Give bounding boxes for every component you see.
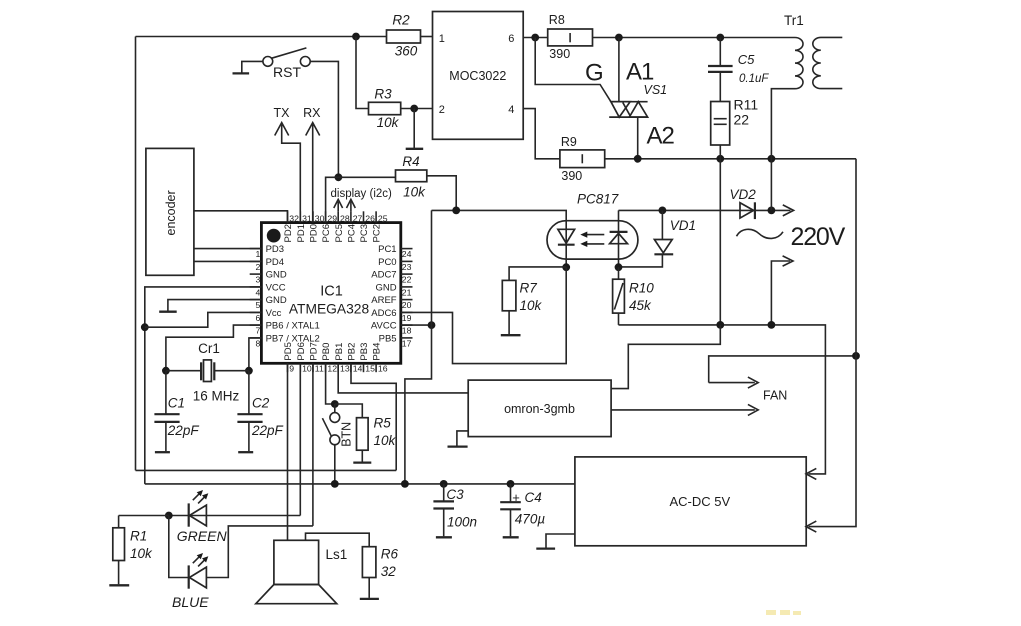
svg-text:16: 16 [378,364,388,374]
svg-text:24: 24 [402,249,412,259]
svg-text:R9: R9 [561,135,577,149]
node triac A1 top [615,34,623,42]
IC1 left pin stubs [250,249,262,338]
svg-text:22pF: 22pF [251,423,284,438]
svg-text:18: 18 [402,326,412,336]
resistor R2 [387,13,421,59]
wire AVCC up to VD line and down to 5V bus [405,210,432,484]
capacitor C1 [154,371,199,453]
wire R10 bottom to AC-DC top arrow [619,325,826,474]
wire right bus down to AC-DC bottom arrow [809,159,857,527]
svg-text:encoder: encoder [164,190,178,235]
svg-text:ADC7: ADC7 [371,270,396,281]
svg-text:2: 2 [439,104,445,116]
svg-text:PC5: PC5 [334,224,345,242]
svg-text:RX: RX [303,106,321,120]
svg-text:390: 390 [549,47,570,61]
wire FAN upper from right bus [709,356,856,388]
AC-DC 5V box [575,457,806,546]
svg-text:29: 29 [327,213,337,223]
svg-text:20: 20 [402,300,412,310]
wire VD2 line horizontal [619,209,791,211]
svg-text:7: 7 [255,326,260,336]
svg-text:Ls1: Ls1 [326,547,348,562]
svg-text:VCC: VCC [266,282,286,293]
IC1 right pin stubs [401,249,413,338]
wire encoder to PD3 [194,248,262,250]
resistor R5 [335,404,397,463]
svg-text:VS1: VS1 [644,83,668,97]
wire VCC pin4 net [145,287,262,484]
svg-text:R10: R10 [629,280,654,295]
ground pin5 [159,300,261,312]
svg-text:C3: C3 [446,487,464,502]
wire Vcc pin6 branch [145,312,262,327]
svg-text:R4: R4 [402,154,419,169]
IC1 bottom pin names [283,342,383,360]
svg-text:6: 6 [255,313,260,323]
svg-text:A1: A1 [626,59,654,86]
wire Tr1 bottom node to VD2 node [770,159,772,211]
svg-text:RST: RST [273,64,301,80]
node R3 right junction [410,105,418,113]
wire bus1 up to PB2 [351,363,396,470]
ground under MOC pin2 [406,109,424,149]
wire XTAL1 pin7 to crystal [166,325,262,371]
label RX with arrow to PD0 [303,106,321,223]
wire R8 right to transformer [593,37,796,39]
svg-text:PD4: PD4 [266,257,284,268]
optocoupler U2 MOC3022 [433,12,524,140]
svg-text:VD1: VD1 [670,218,696,233]
svg-text:31: 31 [302,213,312,223]
wire R3 to MOC pin2 [401,108,433,110]
wire R4 right down [427,176,456,211]
svg-text:R8: R8 [549,13,565,27]
svg-text:PD6: PD6 [296,342,307,360]
svg-text:0.1uF: 0.1uF [739,73,769,85]
svg-text:PC4: PC4 [347,224,358,242]
svg-text:GND: GND [266,270,287,281]
svg-text:PB3: PB3 [359,343,370,361]
svg-text:PC6: PC6 [321,224,332,242]
resistor R8 [548,13,593,61]
wire PD7 pin11 down [312,363,314,526]
node under R4 [452,207,460,215]
svg-text:2: 2 [255,262,260,272]
svg-text:Cr1: Cr1 [198,341,220,356]
svg-text:11: 11 [315,364,324,374]
svg-text:C1: C1 [168,395,185,410]
diode VD1 [619,210,697,267]
svg-text:27: 27 [353,213,363,223]
wire blue branch [169,516,189,578]
svg-text:C5: C5 [738,52,755,67]
IC1 bottom pin stubs [288,363,377,372]
svg-text:30: 30 [315,213,325,223]
svg-text:ATMEGA328: ATMEGA328 [289,301,370,316]
wire encoder to PD4 [194,260,262,262]
wire junction down to R3 [356,37,369,109]
svg-text:360: 360 [395,44,418,59]
arrowhead into AC-DC bottom [806,521,816,532]
node bus2 C4 [507,480,515,488]
svg-text:PC3: PC3 [359,224,370,242]
svg-text:26: 26 [365,213,375,223]
svg-text:PB5: PB5 [379,333,397,344]
photodiode inside PC817 [610,210,628,267]
wire PB0 pin12 to button [326,363,335,404]
svg-text:PB1: PB1 [334,343,345,361]
svg-text:VD2: VD2 [730,187,757,202]
node Tr1 primary bottom [768,155,776,163]
svg-text:Vcc: Vcc [266,308,282,319]
svg-text:10: 10 [302,364,312,374]
svg-text:13: 13 [340,364,350,374]
svg-text:G: G [585,60,604,87]
svg-text:PB2: PB2 [347,343,358,361]
svg-text:10k: 10k [377,115,400,130]
resistor R6 [360,546,399,599]
wire top PB2 net horizontal [136,36,387,38]
capacitor C4 [500,484,545,537]
svg-text:9: 9 [289,364,294,374]
svg-text:25: 25 [378,213,388,223]
wire R9 right bottom AC bus [605,158,856,160]
svg-text:C4: C4 [525,490,542,505]
svg-text:R11: R11 [734,97,759,113]
ground omron [448,431,469,447]
svg-text:AVCC: AVCC [371,321,397,332]
resistor R4 [396,154,427,199]
LED BLUE [189,553,209,589]
wire XTAL2 pin8 to crystal [249,338,262,371]
IC1 left pin names [266,244,320,344]
svg-text:45k: 45k [629,298,652,313]
svg-text:R1: R1 [130,528,147,543]
node VD2 right [768,207,776,215]
wire MOC pin6 to R8 [523,37,548,39]
svg-text:+: + [512,490,520,505]
svg-text:4: 4 [255,287,260,297]
wire reset node to pin29 and R4 [326,177,396,222]
switch RST [233,48,311,80]
IC1 top pin names [283,224,383,242]
IC1 right pin numbers [402,249,412,348]
svg-text:GND: GND [266,295,287,306]
wire ADC6 pin19 to PC817 [401,267,566,363]
svg-text:15: 15 [365,364,375,374]
svg-text:PB6 / XTAL1: PB6 / XTAL1 [266,321,320,332]
resistor R1 [109,516,169,586]
wire AVCC node to PC817 LED top [432,210,567,267]
opto arrows [580,232,604,248]
svg-text:10k: 10k [403,184,426,199]
wire PD6 pin10 to green led [299,363,301,515]
capacitor C3 [433,484,477,537]
resistor R10 varistor [613,267,655,325]
node PC817 right bottom [615,263,623,271]
node bus2 C3 [440,480,448,488]
svg-text:AC-DC 5V: AC-DC 5V [670,494,731,509]
svg-text:100n: 100n [447,514,477,529]
svg-text:PD3: PD3 [266,244,284,255]
node R10 wire / 220V arrow branch [768,321,776,329]
svg-text:14: 14 [353,364,363,374]
wire speaker to R6 [306,533,370,547]
node R11 bottom [716,155,724,163]
svg-text:FAN: FAN [763,389,787,403]
diode VD2 [730,187,757,219]
svg-text:12: 12 [327,364,337,374]
svg-text:16 MHz: 16 MHz [193,388,240,403]
encoder box [146,148,194,275]
resistor R7 [501,267,566,335]
svg-text:10k: 10k [130,546,153,561]
svg-text:GND: GND [375,282,396,293]
svg-text:PC1: PC1 [378,244,396,255]
IC1 right pin names [371,244,397,344]
wire encoder to PD2 [194,211,288,223]
svg-text:PB0: PB0 [321,343,332,361]
resistor R3 [369,87,401,130]
svg-text:8: 8 [255,338,260,348]
wire bus2 5V [145,483,575,485]
wire R2 to MOC pin1 [421,36,433,38]
svg-text:PD2: PD2 [283,224,294,242]
svg-text:R7: R7 [520,280,538,295]
svg-text:IC1: IC1 [320,284,343,300]
wire omron bottom-right FAN arrow [611,404,758,415]
wire bus1 PB2 bottom [136,469,397,471]
svg-text:PD0: PD0 [309,224,320,242]
svg-text:5: 5 [255,300,260,310]
svg-text:28: 28 [340,213,350,223]
node MOC pin6 junction [531,34,539,42]
IC1 pin1 dot marker [267,229,281,243]
node PC817 LED bottom [562,263,570,271]
svg-text:ADC6: ADC6 [371,308,396,319]
svg-text:22pF: 22pF [167,423,200,438]
AC squiggle [737,229,784,238]
svg-text:32: 32 [289,213,299,223]
svg-text:PD5: PD5 [283,342,294,360]
node bus2 BTN [331,480,339,488]
resistor R11 [711,97,759,159]
wire left border vertical [135,37,137,471]
svg-text:22: 22 [402,275,412,285]
LED GREEN [189,490,209,527]
svg-text:390: 390 [561,169,582,183]
wire PB1 pin13 to omron [338,363,468,393]
svg-text:R3: R3 [374,87,392,102]
svg-text:PC2: PC2 [372,224,383,242]
label display (i2c) with arrows [331,188,393,211]
optocoupler U3 PC817 body [547,221,638,259]
svg-text:4: 4 [508,104,514,116]
svg-text:PB4: PB4 [372,343,383,361]
svg-text:22: 22 [734,112,750,128]
IC1 bottom pin numbers [289,364,387,374]
capacitor C5 [708,38,769,102]
svg-text:Tr1: Tr1 [784,13,804,28]
svg-text:MOC3022: MOC3022 [449,69,506,83]
svg-text:PD1: PD1 [296,224,307,242]
svg-text:PD7: PD7 [309,342,320,360]
node AVCC [428,321,436,329]
svg-text:32: 32 [381,564,397,579]
svg-text:BTN: BTN [340,422,354,447]
svg-text:PC0: PC0 [378,257,396,268]
capacitor C2 [237,371,283,453]
svg-text:3: 3 [255,275,260,285]
node crystal right [245,367,253,375]
node Vcc branch [141,323,149,331]
svg-text:GREEN: GREEN [177,528,228,544]
svg-text:R2: R2 [392,13,410,28]
ground AC-DC [536,534,575,549]
triac VS1 [609,38,647,159]
node VD1 top [659,207,667,215]
svg-text:6: 6 [508,33,514,45]
LED inside PC817 [558,229,575,244]
arrow 220V lower [771,256,793,325]
svg-text:A2: A2 [647,122,675,149]
watermark [766,610,801,615]
svg-text:TX: TX [274,106,291,120]
IC U1 ATMEGA328 body [261,223,400,364]
node button top [331,400,339,408]
label TX with arrow to PD1 [274,106,301,223]
svg-text:R6: R6 [381,546,399,561]
node right bus FAN tap [852,352,860,360]
svg-text:PB7 / XTAL2: PB7 / XTAL2 [266,333,320,344]
svg-text:1: 1 [255,249,260,259]
svg-text:R5: R5 [374,416,392,431]
wire RST to reset node [310,61,338,177]
svg-text:17: 17 [402,338,412,348]
node C5 top [716,34,724,42]
wire omron top-right to R10 wire [611,325,720,389]
node reset junction [335,173,343,181]
svg-text:10k: 10k [520,298,543,313]
arrow right of VD2 [783,205,794,216]
svg-text:470µ: 470µ [515,511,546,526]
transformer Tr1 [771,13,842,159]
IC1 left pin numbers [255,249,260,348]
node crystal left [162,367,170,375]
wire green led row [169,515,300,517]
svg-text:PC817: PC817 [577,192,619,207]
speaker Ls1 [256,540,347,603]
wire blue led to PD7 [206,526,313,578]
svg-text:1: 1 [439,33,445,45]
node R10 wire / R11 branch [716,321,724,329]
wire gate G from pin6 node [535,38,611,102]
svg-text:220V: 220V [791,223,846,251]
arrowhead into AC-DC top [806,468,816,479]
switch BTN [322,404,353,484]
crystal Cr1 [166,341,249,404]
resistor R9 [560,135,605,183]
svg-text:19: 19 [402,313,412,323]
svg-text:C2: C2 [252,395,270,410]
svg-text:23: 23 [402,262,412,272]
node R2/R3 junction [352,33,360,41]
IC1 top pin stubs [288,211,377,222]
svg-text:display (i2c): display (i2c) [331,188,393,200]
relay omron-3gmb [468,380,611,437]
svg-text:BLUE: BLUE [172,594,209,610]
node A2 bottom [634,155,642,163]
wire PD5 pin9 to speaker [287,363,289,540]
svg-text:10k: 10k [374,433,397,448]
svg-text:omron-3gmb: omron-3gmb [504,402,575,416]
node R1 / leds [165,512,173,520]
svg-text:21: 21 [402,287,412,297]
svg-text:AREF: AREF [371,295,397,306]
IC1 top pin numbers [289,213,387,223]
wire R11 node down to R10 wire [719,159,721,325]
wire MOC pin4 to R9 [523,109,560,159]
wire AVCC pin18 net [401,324,432,326]
node bus2 AVCC [401,480,409,488]
